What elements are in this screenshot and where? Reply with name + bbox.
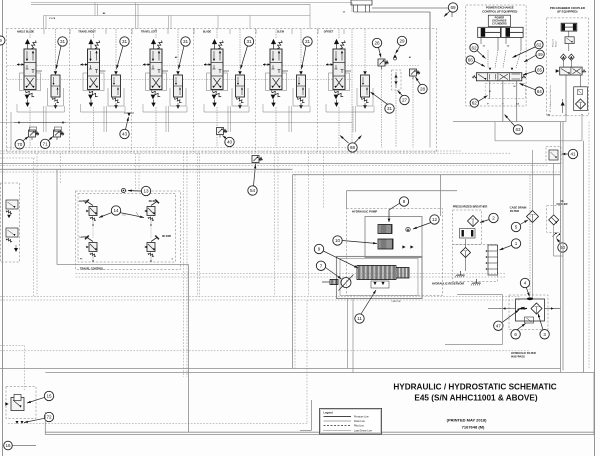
pilot reducing valve for SLEW [297, 71, 306, 109]
shuttle valve 27 [392, 70, 402, 90]
wire top bus [31, 2, 352, 4]
svg-text:71: 71 [43, 142, 49, 147]
svg-text:2: 2 [492, 216, 495, 221]
balloon 69 [448, 3, 457, 12]
svg-text:ANGLE BLADE: ANGLE BLADE [17, 31, 35, 34]
svg-text:15: 15 [46, 394, 52, 399]
svg-text:70: 70 [17, 142, 23, 147]
wire coupler [568, 31, 570, 37]
wire bank bottom dashed bus [7, 147, 353, 149]
pump check symbols [402, 245, 405, 248]
svg-text:7: 7 [320, 263, 323, 268]
legend pilot line [324, 425, 352, 427]
svg-text:Load Sense Line: Load Sense Line [354, 429, 373, 432]
svg-text:Pilot Line: Pilot Line [354, 425, 365, 428]
relief valve 40 [217, 128, 228, 138]
legend drain line [324, 420, 352, 422]
balloon 2 [489, 213, 498, 222]
case drain filter [527, 211, 539, 223]
svg-text:31: 31 [246, 39, 252, 44]
svg-text:(PRINTED MAY 2018): (PRINTED MAY 2018) [447, 418, 487, 423]
svg-text:10: 10 [335, 238, 341, 243]
wire horizontal dashed bus y296 [0, 296, 520, 298]
svg-text:1: 1 [515, 241, 518, 246]
wire legend corner [311, 400, 313, 430]
anticavitation check 43 [127, 113, 130, 116]
solenoid relief with balloon 41 [546, 147, 561, 164]
hydrostatic pump rotating group [357, 266, 396, 280]
balloon 66 [466, 56, 474, 64]
pump drive shaft [341, 278, 351, 288]
svg-text:CASE DRAIN: CASE DRAIN [510, 206, 527, 210]
pump breather symbol [406, 227, 410, 231]
power exchange cylinder left [478, 27, 501, 37]
wire offset area [351, 29, 353, 148]
svg-text:72: 72 [46, 415, 52, 420]
filter block enclosure [509, 295, 548, 330]
balloon 70 [15, 140, 24, 149]
pilot reducing valve for ANGLE BLADE [51, 71, 60, 109]
main spool valve BLADE [204, 39, 229, 107]
wire return loop [293, 174, 561, 176]
wire PE cylinder lines [480, 37, 482, 44]
main control valve enclosure [7, 29, 437, 153]
svg-text:TRAVEL CONTROL: TRAVEL CONTROL [80, 267, 104, 271]
relief valve near 26 [378, 59, 389, 69]
balloon 9 [314, 244, 323, 253]
svg-text:31: 31 [60, 39, 66, 44]
svg-text:54: 54 [250, 188, 256, 193]
main spool valve TRAVEL RIGHT [80, 39, 105, 107]
orifice 13 [122, 189, 126, 193]
reservoir enclosure [453, 245, 498, 282]
svg-text:26: 26 [374, 41, 380, 46]
svg-text:31: 31 [183, 39, 189, 44]
pressurized breather enclosure [453, 210, 482, 245]
wire filter block line [488, 308, 516, 310]
balloon 14 [111, 206, 120, 215]
svg-text:62: 62 [536, 42, 542, 47]
filter bypass element [525, 317, 534, 323]
svg-text:69: 69 [450, 5, 456, 10]
check valve 54 [252, 156, 263, 166]
balloon 72 [44, 412, 53, 421]
svg-text:47: 47 [496, 323, 502, 328]
wire bottom long lines [0, 350, 530, 352]
valve casting outline TRAVEL LEFT [146, 73, 167, 91]
svg-text:HYDRAULIC RESERVOIR: HYDRAULIC RESERVOIR [432, 282, 464, 286]
svg-text:POWER: POWER [495, 17, 505, 20]
balloon 10 [333, 236, 342, 245]
wire mid bus 2 [0, 165, 548, 167]
svg-text:43: 43 [122, 132, 128, 137]
svg-text:9: 9 [318, 247, 321, 252]
wire mid bus 4 [0, 171, 561, 173]
PE solenoid valve [472, 73, 526, 81]
filter bypass diamond [531, 303, 542, 314]
page edge right [594, 0, 596, 456]
travel control enclosure [78, 194, 176, 263]
wire solid gray verticals [188, 265, 190, 433]
svg-text:8: 8 [403, 199, 406, 204]
wire dashed verticals from bank [33, 158, 35, 297]
oil cooler heat arrows [553, 233, 557, 237]
wire right bus horizontals [453, 121, 566, 123]
check valve 29 [393, 54, 397, 58]
balloon 15 [44, 391, 53, 400]
balloon 27 [400, 95, 409, 104]
reservoir strainer [461, 248, 471, 258]
wire PE valve ports [489, 81, 491, 99]
pilot reducing valve for TRAVEL LEFT [174, 71, 183, 109]
valve casting outline SLEW [266, 73, 287, 91]
wire bottom dashed bus [8, 422, 307, 424]
svg-text:62: 62 [471, 45, 477, 50]
svg-text:65: 65 [537, 67, 543, 72]
balloon 62 bottom [470, 99, 478, 107]
pump enclosure dashed [347, 209, 443, 296]
svg-text:12: 12 [432, 217, 438, 222]
wire mid bus 3 [0, 168, 293, 170]
svg-text:62: 62 [472, 101, 478, 106]
svg-text:FILTER: FILTER [510, 209, 519, 213]
balloon 63 [513, 125, 522, 134]
balloon 31 for TRAVEL LEFT [181, 37, 190, 46]
wire oil cooler [553, 171, 555, 215]
svg-text:BLADE: BLADE [203, 31, 212, 34]
svg-text:49: 49 [538, 52, 544, 57]
wire bank verticals [43, 29, 45, 34]
main spool valve TRAVEL LEFT [143, 39, 168, 107]
balloon 1 [511, 239, 520, 248]
wire lower port bus [0, 121, 352, 123]
svg-text:HYDRAULIC / HYDROSTATIC SCHEMA: HYDRAULIC / HYDROSTATIC SCHEMATIC [393, 383, 556, 392]
travel control outer enclosure [76, 191, 181, 270]
balloon 7 [316, 261, 325, 270]
balloon 31 for TRAVEL RIGHT [120, 37, 129, 46]
wire section TRAVEL LEFT [155, 29, 157, 38]
breather check pair [460, 229, 476, 239]
svg-text:C1 C8: C1 C8 [49, 18, 56, 20]
balloon 16 [4, 441, 13, 450]
svg-text:E45 (S/N AHHC11001 & ABOVE): E45 (S/N AHHC11001 & ABOVE) [414, 394, 537, 403]
balloon 31 for OFFSET [385, 104, 394, 113]
coupler pilot check [561, 102, 565, 106]
svg-text:PRESSURIZED BREATHER: PRESSURIZED BREATHER [453, 205, 488, 209]
balloon 6 [511, 330, 520, 339]
wire section TRAVEL RIGHT [93, 29, 95, 38]
relief valve 28 [410, 69, 421, 79]
svg-text:31: 31 [122, 39, 128, 44]
balloon 8 [399, 197, 408, 206]
svg-text:61: 61 [489, 91, 491, 93]
pilot reducing valve for BLADE [236, 71, 245, 109]
svg-text:RH FWD: RH FWD [162, 236, 171, 238]
wire to power exchange [351, 0, 372, 5]
tank symbol left [455, 271, 465, 278]
svg-text:5: 5 [515, 225, 518, 230]
boom lock valve 1 [6, 200, 18, 209]
balloon at left edge [0, 36, 5, 45]
balloon 49 [536, 50, 544, 58]
wire pump drains [347, 299, 349, 369]
suction manifold [486, 245, 498, 275]
svg-text:Legend: Legend [324, 410, 334, 414]
balloon 4 [520, 278, 529, 287]
svg-text:EXCHANGE: EXCHANGE [492, 20, 507, 23]
balloon 68 [348, 143, 357, 152]
svg-text:HYDRAULIC FILTER: HYDRAULIC FILTER [511, 351, 536, 355]
tank symbol right [471, 279, 481, 286]
accessory valve enclosure [6, 387, 36, 419]
svg-text:Pressure Line: Pressure Line [354, 416, 369, 419]
valve casting outline OFFSET [329, 73, 350, 91]
svg-text:CYLINDERS: CYLINDERS [492, 23, 507, 26]
svg-text:3: 3 [543, 332, 546, 337]
balloon 54 [248, 186, 257, 195]
svg-text:11: 11 [357, 316, 362, 321]
wire pump feed [347, 190, 458, 192]
pilot reducing valve for OFFSET [361, 71, 370, 109]
balloon 31 for ANGLE BLADE [58, 37, 67, 46]
svg-text:31: 31 [387, 106, 393, 111]
valve casting outline ANGLE BLADE [20, 73, 41, 91]
balloon 12 [430, 215, 439, 224]
svg-text:L2/8 T3 B: L2/8 T3 B [392, 301, 401, 303]
svg-text:HYDRAULIC PUMP: HYDRAULIC PUMP [352, 210, 377, 214]
wire section OFFSET [338, 29, 340, 38]
svg-text:41: 41 [570, 152, 576, 157]
coupler cylinder [561, 23, 577, 31]
svg-text:7167648 (M): 7167648 (M) [462, 425, 485, 430]
svg-text:SLEW: SLEW [277, 31, 285, 34]
balloon 29 [397, 36, 406, 45]
filter top port [527, 297, 533, 300]
filter inlet arrow [518, 308, 528, 310]
power exchange cylinder right [501, 27, 523, 37]
balloon 65 [535, 66, 543, 74]
balloon 71 [40, 139, 49, 148]
balloon 31 for BLADE [244, 37, 253, 46]
legend pressure line [324, 416, 352, 418]
main spool valve OFFSET [326, 39, 351, 107]
balloon 28 [418, 84, 427, 93]
wire left inlet [10, 112, 12, 150]
coupler filter relief [578, 90, 583, 95]
port relief valve 70 [29, 130, 40, 140]
wire section ANGLE BLADE [29, 29, 31, 38]
breather filter [468, 216, 479, 227]
coupler check valve left [561, 54, 567, 60]
svg-text:63: 63 [515, 127, 521, 132]
boom lock tank [14, 248, 18, 252]
svg-text:31: 31 [305, 39, 311, 44]
port relief valve 71 [54, 130, 65, 140]
svg-text:40: 40 [227, 140, 233, 145]
svg-text:27: 27 [402, 98, 408, 103]
coupler filter diamond [576, 99, 586, 109]
wire case drain vertical [553, 164, 555, 172]
svg-text:(P): (P) [547, 115, 550, 117]
wire travel control bottom bus [76, 273, 506, 275]
svg-text:IN BYPASS: IN BYPASS [511, 354, 525, 358]
svg-text:(IF EQUIPPED): (IF EQUIPPED) [557, 10, 577, 14]
coupler filter box [574, 87, 588, 111]
svg-text:16: 16 [5, 443, 11, 448]
wire right bus verticals [560, 122, 562, 373]
wire reservoir [465, 239, 467, 248]
svg-text:TRAVEL LEFT: TRAVEL LEFT [141, 31, 158, 34]
legend box [320, 408, 382, 434]
balloon 62 right [535, 40, 543, 48]
svg-text:13: 13 [143, 189, 149, 194]
balloon 13 [141, 186, 150, 195]
balloon 3 [540, 330, 549, 339]
coupler pilot valve [565, 37, 574, 44]
wire bank horizontal connectors [7, 65, 420, 67]
legend load sense line [324, 429, 352, 431]
pump servo symbols [373, 282, 376, 285]
svg-text:64: 64 [537, 89, 543, 94]
main spool valve ANGLE BLADE [17, 39, 42, 107]
balloon 11 [355, 314, 364, 323]
valve casting outline BLADE [207, 73, 228, 91]
balloon 41 [568, 149, 577, 158]
svg-text:OFFSET: OFFSET [324, 31, 334, 34]
balloon 5 [511, 222, 520, 231]
wire bottom solid lines [45, 431, 594, 433]
balloon 43 [120, 129, 129, 138]
wire section SLEW [275, 29, 277, 38]
wire case drain [532, 150, 534, 211]
svg-text:66: 66 [468, 58, 474, 63]
svg-text:62: 62 [514, 86, 516, 88]
balloon 31 for SLEW [303, 37, 312, 46]
gear pump spool 2 [378, 239, 393, 249]
svg-text:Drain Line: Drain Line [354, 420, 366, 423]
valve casting outline TRAVEL RIGHT [83, 73, 104, 91]
svg-text:CONTROL (IF EQUIPPED): CONTROL (IF EQUIPPED) [482, 9, 517, 13]
balloon 40 [225, 137, 234, 146]
balloon 47 [494, 321, 503, 330]
balloon 62 left [470, 43, 478, 51]
coupler check valve right [568, 54, 574, 60]
accessory drain arrows [16, 421, 19, 424]
page edge left [2, 0, 4, 456]
wire section BLADE [216, 29, 218, 38]
filter block body [516, 299, 545, 321]
svg-text:14: 14 [113, 208, 119, 213]
boom lock enclosure [1, 183, 20, 262]
wire filter top connections [529, 175, 531, 296]
wire relief manifold [14, 122, 66, 124]
wire bank section dividers [69, 29, 71, 153]
gear pump spool 1 [378, 225, 392, 234]
svg-text:4: 4 [524, 281, 527, 286]
balloon 26 [372, 38, 381, 47]
wire reservoir bottom [457, 294, 503, 296]
boom lock valve 2 [6, 228, 18, 237]
wire mid bus 1 [0, 157, 35, 159]
balloon 60 [558, 243, 567, 252]
main spool valve SLEW [263, 39, 288, 107]
svg-text:29: 29 [399, 39, 405, 44]
accessory relief valve [11, 398, 24, 411]
oil cooler [547, 206, 561, 233]
hydrostatic pump housing [337, 257, 423, 299]
pilot reducing valve for TRAVEL RIGHT [112, 71, 121, 109]
svg-text:6: 6 [514, 332, 517, 337]
svg-text:28: 28 [420, 87, 426, 92]
gear pump box [365, 217, 422, 258]
balloon 64 [535, 87, 543, 95]
coupler solenoid valve [556, 67, 586, 75]
power exchange enclosure [466, 5, 526, 106]
power exchange cylinder box [488, 15, 510, 26]
wire top drops [43, 16, 45, 30]
